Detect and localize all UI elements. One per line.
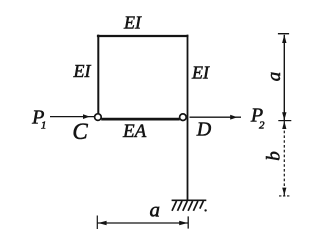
dimension right: top arrowhead up	[282, 35, 286, 43]
ground support line	[172, 199, 207, 201]
dimension bottom a: left arrowhead	[98, 221, 107, 226]
member right column EI	[187, 35, 189, 201]
dimension right: middle tick	[278, 120, 291, 122]
svg-text:b: b	[264, 151, 285, 161]
dimension right: arrowhead down at middle	[282, 112, 286, 120]
svg-text:EI: EI	[191, 63, 210, 83]
svg-text:2: 2	[259, 119, 265, 131]
svg-text:1: 1	[41, 119, 47, 131]
svg-text:a: a	[149, 197, 160, 221]
dimension bottom a: right arrowhead	[179, 221, 187, 226]
hinge D	[180, 114, 187, 121]
dimension right: bottom arrowhead down	[282, 188, 286, 196]
ground hatching	[172, 201, 203, 211]
load P1 wire	[50, 116, 94, 118]
svg-text:C: C	[72, 119, 88, 144]
dimension bottom a: left extension tick	[96, 216, 98, 230]
svg-text:D: D	[196, 118, 212, 140]
dimension right: segment a line	[283, 35, 285, 121]
svg-text:EI: EI	[123, 13, 142, 33]
hinge C	[95, 114, 102, 121]
member top beam EI	[97, 35, 188, 37]
ground hatch dot	[204, 209, 206, 211]
dimension bottom a: line	[98, 222, 189, 224]
svg-text:a: a	[264, 72, 285, 82]
dimension right: segment b line dashed	[283, 121, 285, 196]
dimension bottom a: right extension tick	[187, 216, 189, 228]
member tie bar EA	[101, 118, 180, 121]
load P2 arrowhead	[230, 115, 237, 120]
dimension right: top extension bar	[278, 33, 289, 35]
svg-text:EA: EA	[122, 121, 147, 142]
dimension right: bottom tick	[279, 195, 291, 197]
load P2 wire	[190, 116, 242, 118]
member left column EI	[97, 35, 99, 114]
svg-text:EI: EI	[73, 61, 92, 81]
dimension right: arrowhead up below middle	[282, 121, 286, 129]
load P1 arrowhead	[83, 114, 90, 119]
